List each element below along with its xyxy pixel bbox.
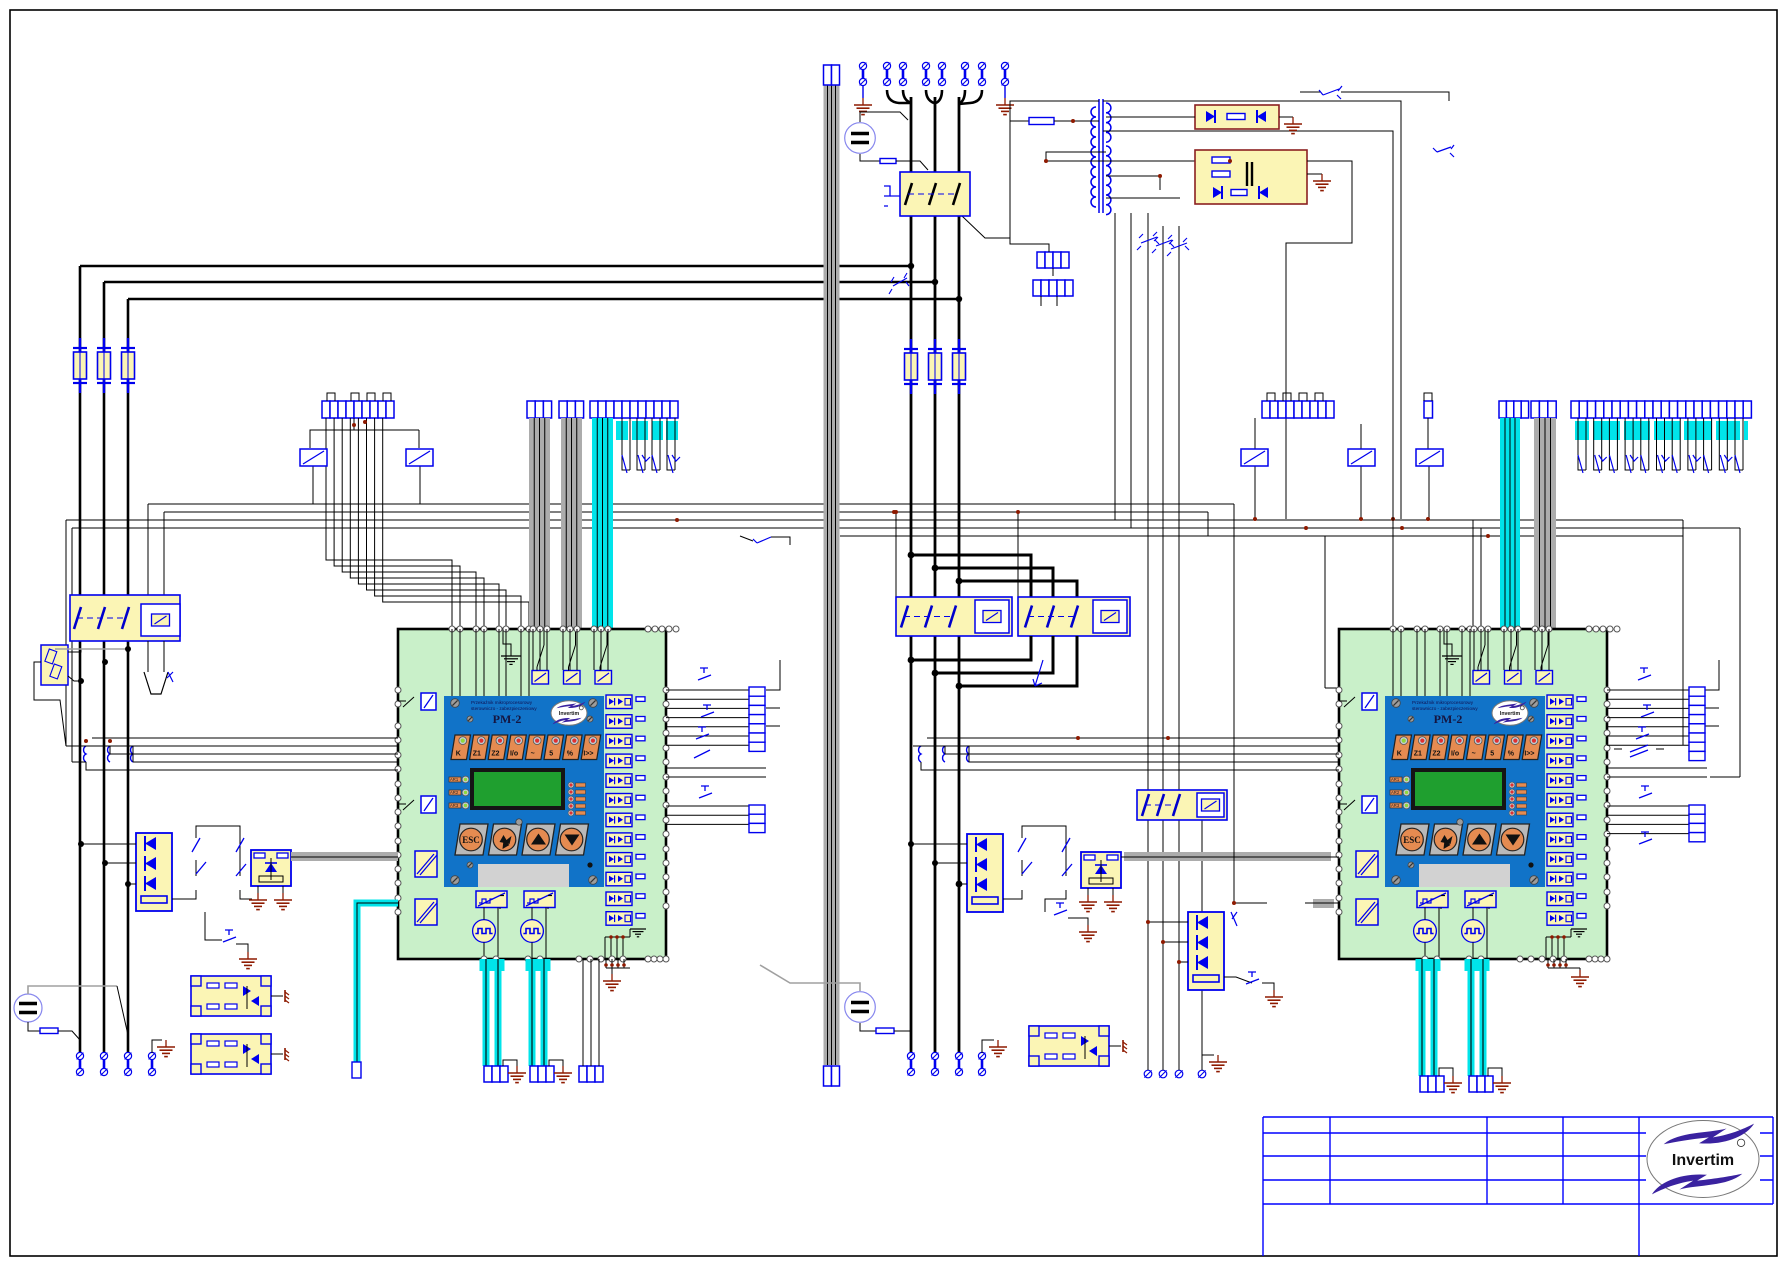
switch contact U2 [1478,645,1485,667]
wire [760,965,860,991]
diode block D1 [136,833,172,911]
wire [1068,918,1088,925]
wire [1017,512,1019,597]
orange key row U2 [1392,735,1542,760]
bolted link [955,1052,962,1075]
terminal strip X3 [559,401,584,418]
wire hook [926,90,934,103]
switch disconnect [1433,145,1454,157]
pin stubs [327,393,391,401]
wire [921,762,1339,770]
ground [239,952,257,969]
phase wire L3 [128,298,959,301]
wire [1130,213,1132,528]
AR status LEDs U2 [1390,776,1410,809]
wire [357,903,398,1062]
switch symbol [889,273,909,294]
fuse F5 [928,339,942,394]
coupler module B2 [191,1034,271,1074]
svg-text:ESC: ESC [1403,835,1421,845]
bolted link [899,62,906,85]
wire [1548,959,1580,970]
PM-2 front panel U2 [1385,696,1545,887]
wire [240,890,252,899]
phase stub [911,636,1031,660]
ground [1284,117,1302,134]
wire [503,1060,517,1066]
LCD display U1 [470,768,565,810]
relay coil K4 [1348,449,1375,466]
svg-text:Invertim: Invertim [559,711,580,717]
ground [274,893,292,910]
wire [172,890,196,899]
PWM driver U2 [1465,891,1496,908]
junction [1253,517,1257,521]
wire [1003,890,1022,899]
optocoupler IN3 U2 [1547,734,1586,748]
wire [78,745,398,747]
switch [1033,660,1043,686]
terminal strip Y3 [579,1066,603,1082]
optocoupler IN1 U2 [1547,695,1586,709]
pushbutton [1054,903,1067,915]
relay coil K1 [300,449,327,466]
relay coil K3 [1241,449,1268,466]
wire fan right of U1 [666,660,780,824]
terminal column Z2 [749,805,765,833]
wire hook [960,90,965,103]
PM-2 protection relay unit U2 green module [1339,629,1607,959]
wire [1202,1055,1214,1070]
optocoupler IN12 U2 [1547,912,1586,926]
optocoupler IN5 U2 [1547,774,1586,788]
fuse F2 [97,338,111,393]
wire [132,746,134,762]
wire [1112,888,1114,895]
label plate U1 [478,864,569,887]
wire [291,856,398,858]
wire [109,746,111,754]
pushbutton [1636,727,1649,739]
orange key row U1 [451,735,601,760]
phase stub [935,636,1053,673]
wire [163,512,165,595]
highlighted band right [1575,421,1748,440]
optocoupler IN6 U1 [606,794,645,808]
terminal column Z1 [749,687,765,751]
wire [1360,466,1362,519]
wire [1254,466,1256,519]
wire [310,418,354,448]
contact fan right [1578,418,1743,470]
PWM driver U1 [476,891,507,908]
wire [86,762,398,770]
junction [1044,159,1048,163]
pulse output U2 [1462,920,1485,943]
bolted link [883,62,890,85]
wire [606,959,630,974]
wire bundle U2 [1393,629,1549,696]
cable duct right [1534,418,1556,629]
optocoupler IN7 U1 [606,813,645,827]
contactor Q4 [1018,597,1130,636]
PM-2 protection relay unit U1 green module [398,629,666,959]
measuring cable duct 2 [561,418,582,629]
bolted link [931,1052,938,1075]
svg-text:AR3: AR3 [450,803,459,808]
wire bundle [583,959,599,1066]
bolted link [148,1052,155,1075]
wire [531,908,533,920]
svg-text:AR2: AR2 [450,790,459,795]
optocoupler IN6 U2 [1547,794,1586,808]
svg-text:%: % [1508,751,1515,758]
wire [913,745,1339,747]
pushbutton [1639,832,1652,844]
terminal [352,1062,361,1078]
contact fan [622,418,675,470]
switch symbol [1167,238,1189,256]
diode block D3 [1188,912,1224,990]
wire [133,761,398,763]
input relay U1 [532,671,549,685]
svg-text:AR2: AR2 [1391,790,1400,795]
bolted link [124,1052,131,1075]
pulse symbol [884,186,890,206]
internal contact U2 [1344,697,1355,707]
output relay U1 [415,899,437,925]
wire [1488,1068,1502,1076]
relay coil K2 [406,449,433,466]
bolted link [907,1052,914,1075]
junction [352,423,356,427]
wire [944,746,946,754]
wire [860,154,880,161]
wire net B [164,511,1208,513]
wire [1004,85,1006,98]
svg-text:PM-2: PM-2 [493,712,522,726]
control buttons U1 [455,819,589,855]
wire hook [887,90,911,103]
wire [1121,856,1339,858]
pulse output cable 4 [1465,959,1490,1076]
fuse F1 [73,338,87,393]
optocoupler IN10 U2 [1547,872,1586,886]
terminal column Z4 [1689,805,1705,842]
wire hook [959,90,982,104]
junction [956,296,962,302]
junction [1232,901,1236,905]
svg-text:Przekaźnik mikroprocesorowy: Przekaźnik mikroprocesorowy [1412,700,1474,705]
terminal strip Y5 [1469,1076,1493,1092]
wire [271,995,283,997]
wire [1324,536,1326,688]
internal ground U1 [501,650,521,664]
optocoupler IN9 U1 [606,853,645,867]
wire [1010,101,1099,224]
internal ground U1 [605,929,646,959]
wire [968,746,970,762]
wire [1682,520,1684,745]
gray stub [1313,899,1334,908]
pushbutton [1641,705,1654,717]
AR status LEDs U1 [449,776,469,809]
wire [1010,120,1029,122]
DC source G2 [14,994,42,1022]
pushbutton [701,705,714,717]
optocoupler module A2 [1081,852,1121,888]
pushbutton [699,786,712,798]
junction [1304,526,1308,530]
optocoupler IN5 U1 [606,774,645,788]
contactor Q5 [1137,790,1227,820]
wire [1045,890,1066,912]
Invertim company logo [1647,1121,1759,1198]
optocoupler IN12 U1 [606,912,645,926]
resistor R3 [876,1028,894,1034]
chassis ground [1123,1040,1127,1053]
wire [1162,790,1164,1070]
input relay U2 [1505,671,1522,685]
contact symbols [1018,838,1072,876]
duct terminal top [824,65,840,85]
contactor Q2 with relay [70,595,180,641]
internal ground U2 [1546,929,1587,959]
highlighted duct right [1500,418,1520,629]
svg-text:Invertim: Invertim [1500,711,1521,717]
wire [962,216,1010,238]
PM-2 front panel U1 [444,696,604,887]
switch contact U1 [600,645,607,667]
svg-text:I/o: I/o [510,751,518,758]
ground [1444,1076,1462,1093]
input relay U2 [1473,671,1490,685]
diode block D2 [967,834,1003,912]
wire bundle X1 to U1 [326,418,529,630]
ground [854,98,872,115]
wire [418,430,420,448]
wire [860,112,908,122]
junction [932,279,938,285]
terminal strip X5 [1262,401,1334,418]
pulse output U1 [473,920,496,943]
withdrawable symbol [144,641,173,694]
switch symbol [1319,86,1342,99]
svg-text:PM-2: PM-2 [1434,712,1463,726]
wire [1148,921,1188,923]
screw link [1175,1070,1183,1078]
chassis ground [285,1048,289,1061]
optocoupler IN2 U1 [606,715,645,729]
wire net E [840,535,1683,537]
wire [1300,91,1320,93]
wire [151,1040,153,1053]
phase wire L1 [80,265,911,268]
terminal strip X2 [527,401,552,418]
wire gray [55,648,128,650]
optocoupler IN8 U2 [1547,833,1586,847]
junction [1486,534,1490,538]
wire [1109,1045,1121,1047]
ground [249,893,267,910]
wire [127,1040,129,1052]
phase wire center C [958,97,961,1052]
wire [1114,213,1116,520]
bolted link [100,1052,107,1075]
pulse output U2 [1414,920,1437,943]
pulse output U1 [521,920,544,943]
svg-text:I>>: I>> [583,751,593,758]
wire [68,676,81,681]
PWM driver U1 [524,891,555,908]
ground [157,1040,175,1057]
wire [66,745,78,747]
wire [1052,268,1054,276]
switch contact U1 [569,645,576,667]
switch contact U2 [1510,645,1517,667]
terminal strip [1033,280,1073,296]
junction [675,518,679,522]
LCD display U2 [1411,768,1506,810]
measuring cable duct 1 [529,418,550,629]
contact pair [1022,826,1066,876]
wire [81,843,136,845]
bolted link [922,62,929,85]
wire [1428,466,1430,519]
wire [959,883,967,885]
svg-text:AR3: AR3 [1391,803,1400,808]
wire [1087,888,1089,895]
wire [257,886,259,893]
junction [908,552,915,559]
wire [147,504,149,595]
optocoupler IN4 U2 [1547,754,1586,768]
pushbutton [696,727,709,739]
optocoupler IN3 U1 [606,734,645,748]
wire [483,908,485,920]
wire [236,944,248,952]
contactor Q3 [896,597,1012,636]
pulse output cable 1 [480,959,505,1066]
wire [1360,424,1362,449]
label plate U2 [1419,864,1510,887]
bolted link [938,62,945,85]
pushbutton [1638,668,1651,680]
junction [892,510,896,514]
wire [1224,977,1252,983]
bolted link [961,62,968,85]
output relay U2 [1356,899,1378,925]
terminal pins U1 [395,626,679,962]
varistor box [41,645,68,685]
wire [1307,173,1322,175]
pulse output cable 3 [1416,959,1441,1076]
optocoupler IN9 U2 [1547,853,1586,867]
terminal strip Y1 [484,1066,508,1082]
wire stub [1040,296,1042,306]
wire [969,761,1339,763]
wire [271,1053,283,1055]
wire [1341,92,1449,101]
svg-text:%: % [567,751,574,758]
phase loop [935,568,1053,597]
optocoupler IN2 U2 [1547,715,1586,729]
coupler module B3 [1029,1026,1109,1066]
wire [911,843,967,845]
wire [92,737,398,739]
svg-text:Z1: Z1 [1414,751,1422,758]
optocoupler module A1 [251,850,291,886]
wire net C [66,519,1683,521]
wire [1472,908,1474,920]
DC source G1 [845,123,876,154]
svg-text:AR1: AR1 [450,777,459,782]
svg-text:Z2: Z2 [491,751,499,758]
ground [1571,970,1589,987]
phase loop [911,555,1031,597]
terminal strip Y4 [1420,1076,1444,1092]
screw link [1159,1070,1167,1078]
phase wire L2 [104,281,935,284]
wire [1739,528,1741,777]
rectifier module A [1195,105,1279,129]
wire [549,1060,563,1066]
wire [1427,418,1429,449]
junction [84,739,88,743]
ground [603,974,621,991]
wire [890,195,900,197]
aux relay U1 [421,693,436,710]
svg-text:~: ~ [1472,751,1476,758]
pin stubs [1267,393,1323,401]
terminal strip X1 [322,401,394,418]
wire [1179,961,1188,963]
optocoupler IN8 U1 [606,833,645,847]
alarm LED column U2 [1509,782,1526,816]
long terminal strip X9 [1571,401,1751,418]
current transformer coils [84,746,133,762]
junction [834,518,838,522]
optocoupler IN11 U2 [1547,892,1586,906]
contact symbols right [1578,455,1740,473]
bolted link [978,1052,985,1075]
coupler module B1 [191,976,271,1016]
switch symbol [1152,235,1174,253]
wire net D [72,527,1740,529]
terminal column Z3 [1689,687,1705,761]
bolted link [978,62,985,85]
wire [1162,226,1164,790]
output relay U1 [415,851,437,877]
terminal X6 [1424,401,1433,418]
wire [1424,908,1426,920]
contact [1614,745,1664,757]
highlighted wire [357,903,398,1062]
phase loop [959,581,1077,597]
junction [1391,517,1395,521]
contactor Q1 [900,172,970,216]
wire [110,753,398,755]
terminal strip X7 [1499,401,1529,418]
terminal strip X4 [590,401,678,418]
terminal strip X8 [1531,401,1556,418]
control buttons U2 [1396,819,1530,855]
internal ground U2 [1442,650,1462,664]
svg-text:I/o: I/o [1451,751,1459,758]
wire [935,862,967,864]
ground [1265,990,1283,1007]
resistor R1 [880,159,896,164]
